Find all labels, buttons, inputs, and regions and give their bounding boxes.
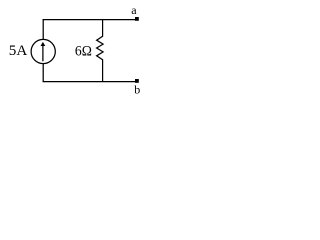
resistor R1 6ohm zigzag	[97, 19, 104, 82]
wire top from source to terminal a	[43, 19, 137, 21]
terminal a dot	[135, 17, 139, 21]
current source I1 circle	[31, 39, 55, 63]
svg-text:b: b	[134, 83, 140, 97]
current source arrow	[42, 45, 44, 62]
terminal b dot	[135, 79, 139, 83]
svg-text:5A: 5A	[9, 43, 28, 59]
wire left lower segment	[42, 64, 44, 82]
wire bottom from source to terminal b	[43, 81, 137, 83]
svg-text:6Ω: 6Ω	[75, 44, 92, 60]
wire left upper segment	[42, 19, 44, 40]
svg-text:a: a	[131, 3, 137, 17]
